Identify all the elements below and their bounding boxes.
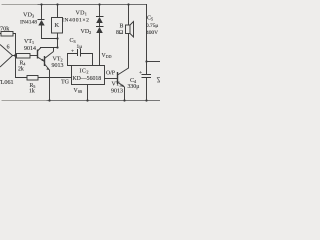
svg-text:TL061: TL061 — [0, 79, 14, 86]
pin VSS wire to ground — [87, 85, 89, 101]
wire right vertical from rail corner down to C4 — [146, 5, 148, 75]
relay K — [52, 18, 63, 34]
transistor VT1 9014 — [38, 48, 45, 62]
diode VD1 (IN4001) — [96, 17, 104, 24]
wire VD2 chain branch from rail — [99, 5, 101, 17]
wire top rail (faint left portion) — [2, 4, 38, 6]
wire relay branch from rail — [57, 5, 59, 18]
wire VT3 emitter to ground rail — [124, 87, 126, 101]
node dots on top rail — [40, 3, 42, 5]
svg-text:1k: 1k — [29, 88, 35, 94]
diode VD2 (IN4001) — [96, 27, 104, 34]
wire output node down to R5 — [16, 56, 28, 78]
svg-text:9013: 9013 — [52, 63, 64, 69]
wire below C4 to bottom rail — [146, 78, 148, 101]
svg-text:VT1: VT1 — [24, 39, 34, 45]
wire op-amp output — [13, 55, 17, 57]
transistor VT3 9013 — [118, 68, 129, 101]
resistor R5 1k — [27, 76, 72, 81]
wire collector bus — [41, 47, 58, 49]
wire VT2 emitter to ground rail — [49, 70, 51, 101]
wire speaker bottom to VT3 collector — [128, 34, 130, 69]
svg-text:9014: 9014 — [24, 46, 36, 52]
wire bottom rail (faint left portion) — [2, 100, 47, 102]
IC2 KD-56018 music chip — [72, 66, 105, 85]
wire C3 left lead down to IC2 top corner — [68, 54, 78, 66]
svg-text:IN4148: IN4148 — [20, 20, 37, 26]
wire Rf right lead down to output node — [13, 34, 16, 56]
svg-text:KD—56018: KD—56018 — [73, 76, 102, 82]
svg-text:400V: 400V — [146, 30, 158, 36]
svg-text:C5: C5 — [147, 16, 153, 22]
svg-text:B: B — [120, 24, 124, 30]
svg-text:+: + — [71, 49, 74, 55]
wire speaker branch from rail — [128, 5, 130, 26]
svg-text:6: 6 — [7, 44, 10, 50]
wire between VD1 and VD2 diodes — [99, 23, 101, 27]
node C4 top junction — [145, 60, 147, 62]
svg-text:9013: 9013 — [111, 89, 123, 95]
capacitor C4 330u electrolytic — [142, 75, 152, 78]
transistor VT2 9013 — [45, 48, 54, 101]
svg-text:C3: C3 — [70, 38, 76, 44]
svg-text:0.75μ: 0.75μ — [146, 23, 158, 29]
svg-text:VD2: VD2 — [81, 29, 92, 35]
wire top rail — [38, 4, 147, 6]
wire relay bottom to collector bus — [57, 33, 59, 48]
resistor Rf feedback 70k — [0, 32, 16, 56]
svg-text:330μ: 330μ — [128, 84, 140, 90]
svg-text:VDD: VDD — [102, 53, 112, 59]
wire Rf left lead — [0, 33, 1, 35]
svg-text:IN4001×2: IN4001×2 — [62, 18, 89, 24]
svg-text:TG: TG — [61, 80, 70, 86]
wire VD3 anode down and across to relay node — [42, 25, 58, 39]
wire VD3 branch from rail — [41, 5, 43, 20]
svg-text:O/P: O/P — [106, 71, 115, 77]
wire O/P output to VT3 base — [105, 78, 118, 80]
component cut off at right edge — [157, 78, 160, 83]
svg-text:2k: 2k — [18, 67, 24, 73]
node dots on bottom rail — [48, 99, 50, 101]
node output junction — [14, 54, 16, 56]
svg-text:VT2: VT2 — [53, 57, 63, 63]
wire bottom rail — [47, 100, 160, 102]
wire right stub toward cut-off component — [147, 61, 161, 63]
resistor R4 2k — [17, 54, 38, 59]
svg-text:VSS: VSS — [74, 88, 83, 94]
svg-text:VT3: VT3 — [112, 82, 122, 88]
capacitor C3 1u — [78, 49, 81, 57]
diode VD3 IN4148 flyback — [38, 20, 45, 26]
speaker B 8ohm — [126, 22, 134, 38]
wire R5 to TG pin — [38, 77, 72, 79]
svg-text:VD1: VD1 — [76, 11, 88, 17]
svg-text:+: + — [139, 70, 142, 76]
svg-text:K: K — [55, 22, 60, 29]
svg-text:1μ: 1μ — [77, 44, 83, 50]
op-amp IC1 TL061 — [0, 45, 13, 68]
node collector bus junction — [56, 46, 58, 48]
node relay/diode junction — [56, 37, 58, 39]
wire C3 right lead down to IC2 top — [81, 54, 93, 66]
svg-text:70k: 70k — [0, 26, 10, 33]
svg-text:IC2: IC2 — [80, 69, 89, 75]
svg-text:8Ω: 8Ω — [116, 30, 124, 36]
wire VD2 chain down to IC2 VDD pin — [99, 33, 101, 66]
